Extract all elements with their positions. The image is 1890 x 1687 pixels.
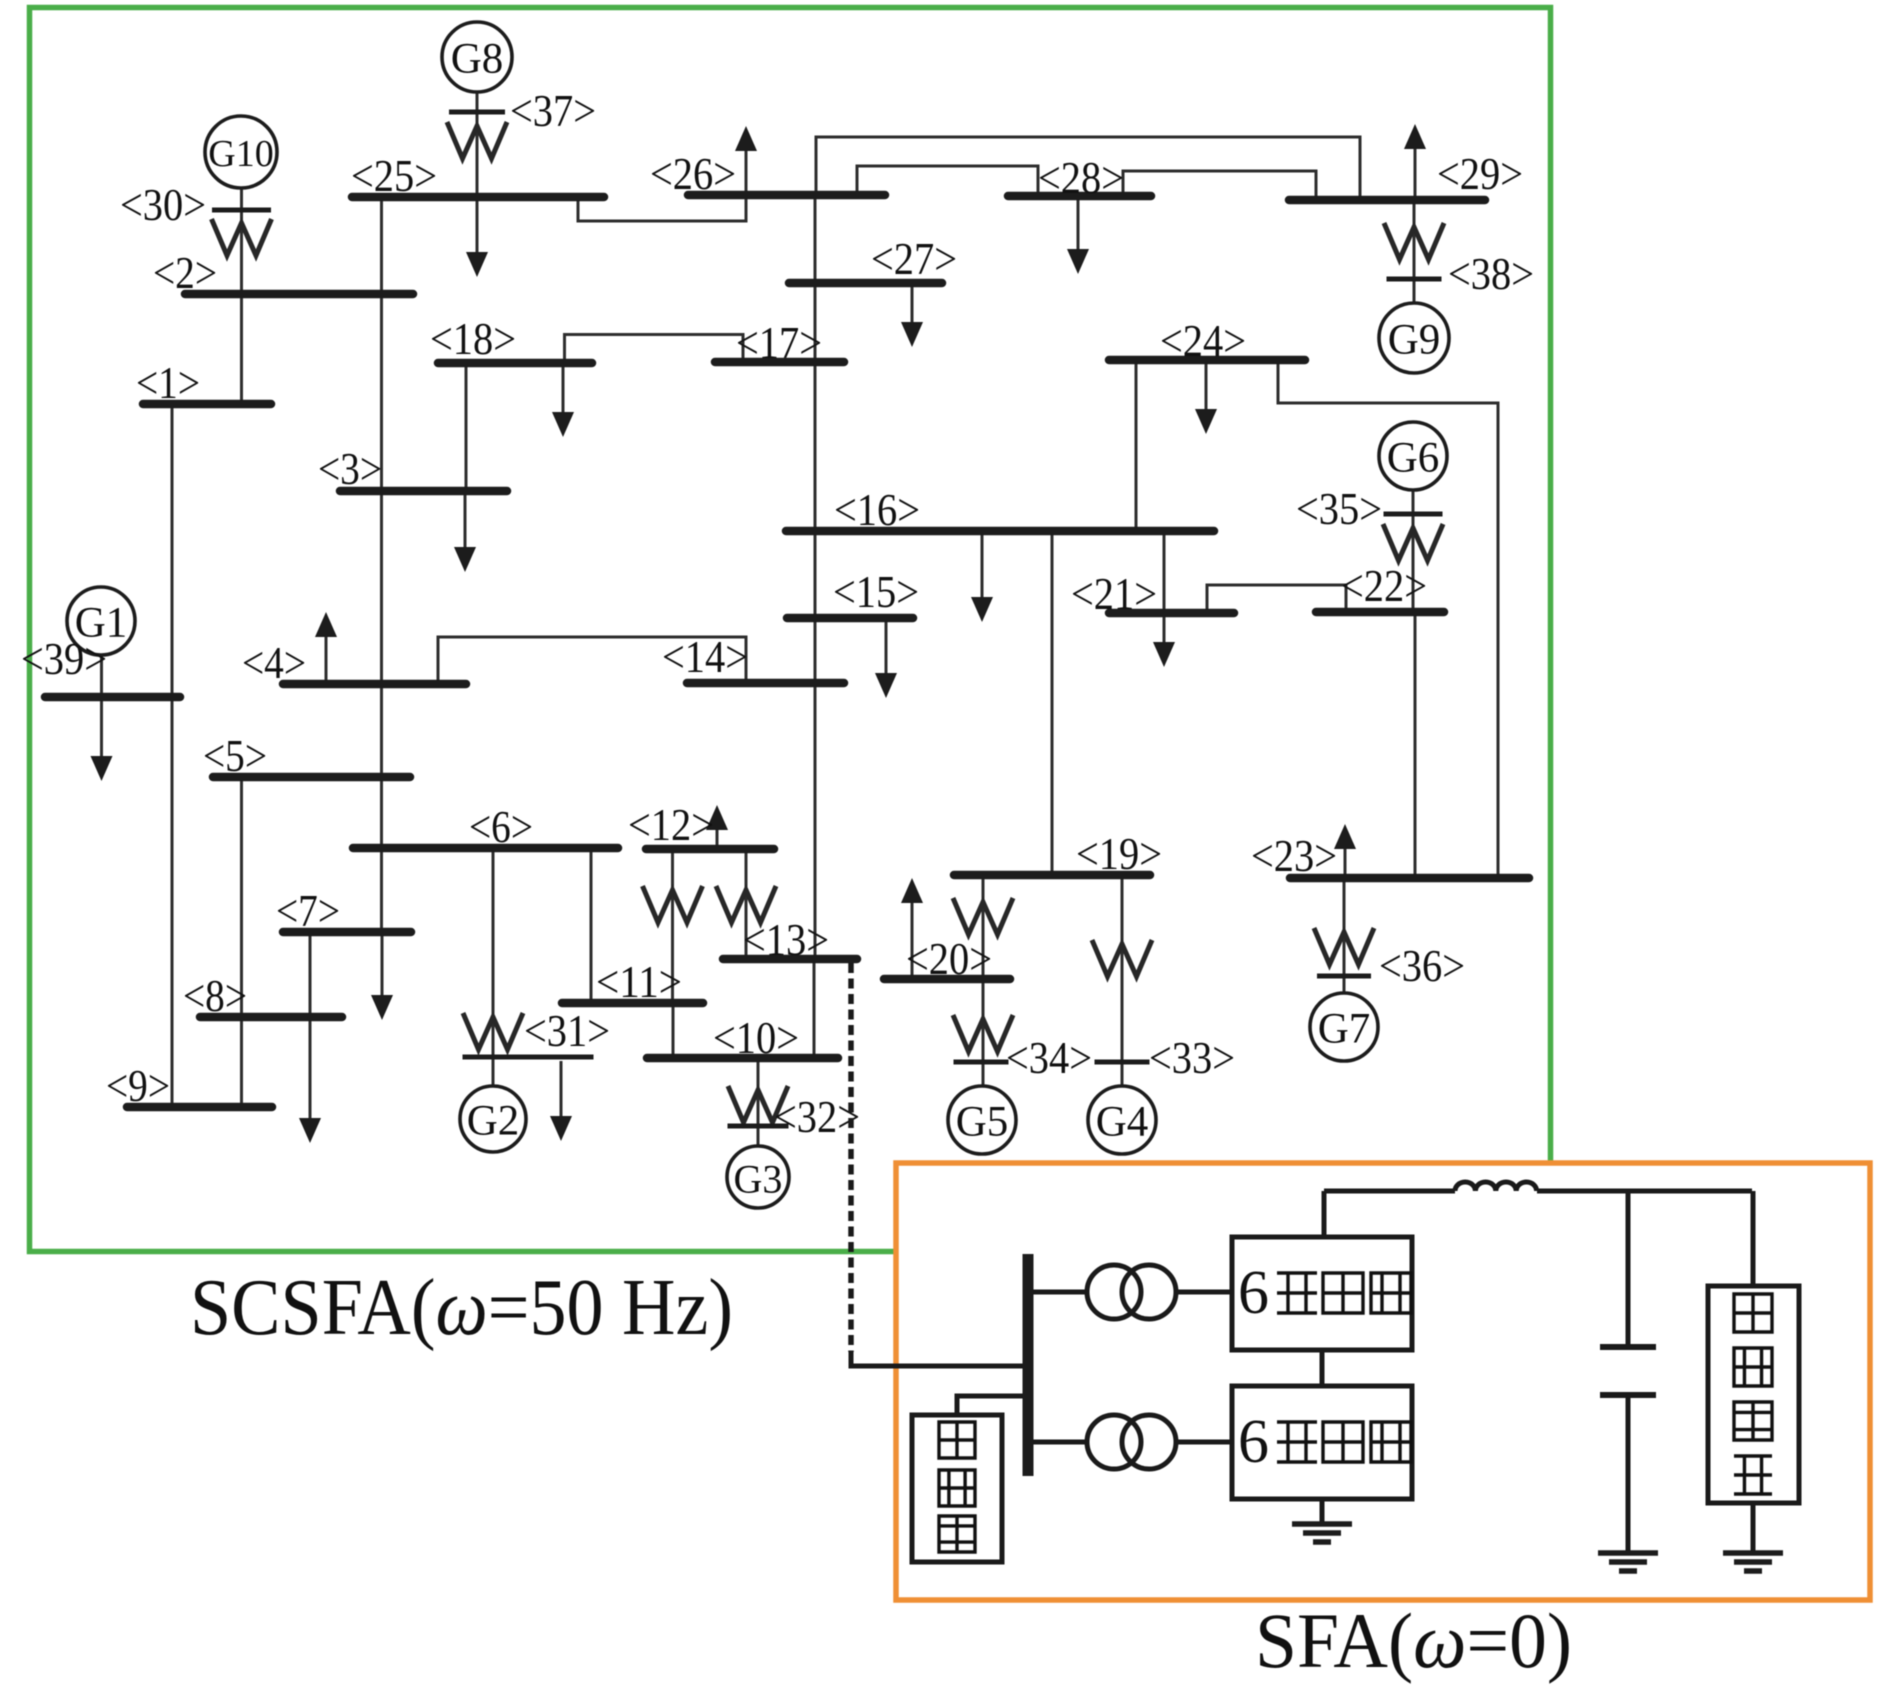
- svg-text:<33>: <33>: [1149, 1032, 1235, 1083]
- wire 17-18: [565, 335, 744, 364]
- bus 10: [647, 1054, 838, 1063]
- svg-text:<3>: <3>: [318, 443, 382, 494]
- wire 16-21: [1163, 531, 1166, 613]
- bus 18: [438, 359, 592, 368]
- wire 5-8: [240, 777, 243, 1017]
- bus 8: [200, 1013, 342, 1022]
- wire 13-10: [813, 959, 816, 1058]
- wire 16-24: [1135, 360, 1138, 531]
- wire 12-13 xfmr: [745, 849, 748, 959]
- wire 21-22: [1207, 585, 1346, 613]
- wire 6-31 G2 chain: [492, 848, 495, 1085]
- svg-text:<34>: <34>: [1006, 1032, 1092, 1083]
- svg-text:G10: G10: [208, 133, 273, 175]
- svg-text:<35>: <35>: [1296, 483, 1382, 534]
- svg-text:<6>: <6>: [469, 801, 533, 852]
- bus 13: [723, 955, 857, 964]
- svg-text:<8>: <8>: [183, 970, 247, 1021]
- wire 19-33 G4 chain: [1121, 875, 1124, 1086]
- load arrow bus12 load: [706, 805, 728, 845]
- svg-text:<5>: <5>: [203, 730, 267, 781]
- svg-text:<28>: <28>: [1038, 152, 1124, 203]
- bus 15: [787, 614, 913, 623]
- wire filter to converter bus: [957, 1396, 1023, 1415]
- wire 25-26: [578, 195, 746, 221]
- wire G10 stem 30-2-1: [240, 188, 243, 404]
- svg-text:G8: G8: [451, 36, 504, 83]
- bus 11: [562, 999, 703, 1008]
- svg-text:<26>: <26>: [650, 148, 736, 199]
- transformer winding symbol 19-33 xfmr: [1092, 940, 1152, 977]
- wire 11-10: [672, 1003, 675, 1058]
- svg-text:<16>: <16>: [834, 484, 920, 535]
- bus 5: [213, 773, 410, 782]
- bus 25: [352, 193, 604, 202]
- wire 16-15-14-13 riser: [814, 531, 817, 959]
- SFA subsystem boundary (orange box, white fill overlaps green box corner): [896, 1163, 1870, 1600]
- transformer winding symbol 12-11 xfmr winding: [643, 886, 703, 923]
- transformer winding symbol 12-13 xfmr winding: [716, 886, 776, 923]
- svg-text:G4: G4: [1096, 1099, 1149, 1146]
- load arrow bus28 load: [1067, 200, 1089, 274]
- generator G3: [727, 1146, 789, 1208]
- load arrow bus8 load: [299, 1021, 321, 1143]
- wire G1 stem: [100, 655, 103, 697]
- svg-text:<39>: <39>: [21, 633, 107, 684]
- transformer winding symbol 20-34 xfmr: [953, 1015, 1013, 1052]
- converter transformer T2: [1087, 1415, 1176, 1469]
- wire 3-18: [465, 363, 468, 491]
- load arrow bus31 load: [550, 1061, 572, 1141]
- dc filter capacitor branch: [1626, 1191, 1631, 1344]
- svg-text:<25>: <25>: [351, 150, 437, 201]
- svg-text:<32>: <32>: [774, 1091, 860, 1142]
- dashed dc tie line from bus 13: [848, 963, 854, 1352]
- wire 16-19: [1051, 531, 1054, 875]
- svg-text:<18>: <18>: [430, 313, 516, 364]
- svg-text:<14>: <14>: [662, 631, 748, 682]
- wire 6-11: [590, 848, 593, 1003]
- wire G8 stem 37-25: [476, 92, 479, 197]
- svg-text:G9: G9: [1388, 317, 1441, 364]
- bus 1: [143, 400, 271, 409]
- bus 16: [786, 527, 1214, 536]
- wire G3 stem 10-32: [757, 1058, 760, 1146]
- load arrow bus24 load: [1195, 364, 1217, 434]
- wire 26-28: [857, 166, 1038, 196]
- generator G7: [1310, 993, 1378, 1061]
- generator G1: [67, 587, 135, 655]
- generator G4: [1088, 1086, 1156, 1154]
- ground capacitor ground: [1598, 1553, 1658, 1571]
- dc load box 直流负载: [1751, 1191, 1756, 1286]
- load arrow bus18 load: [552, 367, 574, 437]
- generator G6: [1379, 422, 1447, 490]
- transformer bar node 31 bar: [463, 1055, 594, 1060]
- wire 12-11 xfmr: [671, 849, 674, 1003]
- load arrow bus21 load: [1153, 617, 1175, 667]
- svg-text:<37>: <37>: [510, 85, 596, 136]
- svg-text:<24>: <24>: [1160, 315, 1246, 366]
- svg-text:<31>: <31>: [524, 1005, 610, 1056]
- load arrow bus29 load: [1404, 124, 1426, 200]
- svg-text:G7: G7: [1318, 1006, 1371, 1053]
- generator G5: [948, 1086, 1016, 1154]
- bus 26: [688, 191, 885, 200]
- bus 3: [340, 487, 507, 496]
- transformer bar node 34 bar: [954, 1060, 1009, 1065]
- transformer winding symbol G8 xfmr: [447, 122, 507, 159]
- transformer winding symbol G10 xfmr: [212, 219, 272, 256]
- svg-text:<15>: <15>: [833, 566, 919, 617]
- svg-text:<38>: <38>: [1448, 248, 1534, 299]
- svg-text:<21>: <21>: [1071, 568, 1157, 619]
- transformer winding symbol 23-36 xfmr: [1314, 928, 1374, 965]
- svg-text:<20>: <20>: [906, 933, 992, 984]
- transformer bar node 32 bar: [728, 1124, 789, 1129]
- dc smoothing reactor + dc line: [1324, 1189, 1455, 1194]
- bus 22: [1316, 608, 1444, 617]
- bus 19: [954, 871, 1150, 880]
- svg-text:<11>: <11>: [596, 956, 682, 1007]
- wire G9 stem 29-38: [1413, 200, 1416, 303]
- wire 8-9: [240, 1017, 243, 1107]
- svg-text:6: 6: [1238, 1259, 1269, 1327]
- bus 2: [185, 290, 413, 299]
- bus 27: [789, 279, 942, 288]
- load arrow bus25 load: [466, 201, 488, 277]
- wire 27-17-16 riser: [814, 195, 817, 531]
- wire 22-23: [1414, 612, 1417, 878]
- svg-text:<29>: <29>: [1437, 148, 1523, 199]
- wire T1-bridge1: [1176, 1290, 1232, 1295]
- svg-text:SFA(ω=0): SFA(ω=0): [1255, 1597, 1572, 1684]
- wire bridge1-bridge2 link: [1320, 1350, 1325, 1386]
- transformer winding symbol G9 xfmr: [1384, 223, 1444, 260]
- svg-text:SCSFA(ω=50 Hz): SCSFA(ω=50 Hz): [190, 1264, 733, 1352]
- filter box 滤波器: [912, 1415, 1002, 1562]
- wire 4-14: [438, 637, 746, 684]
- svg-text:<13>: <13>: [743, 914, 829, 965]
- generator G2: [460, 1086, 526, 1152]
- svg-text:<2>: <2>: [153, 247, 217, 298]
- svg-text:G2: G2: [467, 1098, 520, 1145]
- load arrow bus27 load: [901, 287, 923, 347]
- load arrow bus23 load: [1334, 824, 1356, 874]
- 6-pulse bridge 2 box: [1232, 1386, 1412, 1499]
- bus 28: [1008, 192, 1151, 201]
- transformer winding symbol G3 xfmr: [728, 1086, 788, 1123]
- wire 24-23: [1278, 360, 1498, 878]
- svg-text:G6: G6: [1387, 435, 1440, 482]
- load arrow bus26 load: [735, 126, 757, 195]
- transformer winding symbol G2 xfmr: [463, 1013, 523, 1050]
- svg-text:<22>: <22>: [1341, 560, 1427, 611]
- svg-text:<36>: <36>: [1379, 940, 1465, 991]
- wire 19-20-34 G5 chain: [982, 875, 985, 1086]
- transformer bar node 37 bar: [449, 110, 505, 115]
- svg-text:<4>: <4>: [242, 637, 306, 688]
- converter transformer T1: [1087, 1265, 1176, 1319]
- bus 29: [1289, 196, 1485, 205]
- svg-text:<1>: <1>: [136, 357, 200, 408]
- bus 6: [353, 844, 618, 853]
- svg-text:<12>: <12>: [628, 799, 714, 850]
- bus 4: [283, 680, 466, 689]
- wire 28-29: [1123, 171, 1316, 200]
- load arrow bus15 load: [875, 622, 897, 698]
- load arrow bus16 load: [971, 535, 993, 622]
- transformer bar node 36 bar: [1317, 974, 1371, 979]
- svg-text:G5: G5: [956, 1099, 1009, 1146]
- svg-text:G3: G3: [734, 1157, 783, 1202]
- svg-text:<30>: <30>: [120, 179, 206, 230]
- converter ac bus: [1023, 1254, 1034, 1476]
- bus 9: [127, 1103, 272, 1112]
- bus 12: [646, 845, 774, 854]
- bus 39: [45, 693, 180, 702]
- wire bus-T1: [1033, 1290, 1087, 1295]
- wire 1-39-9: [171, 404, 174, 1107]
- bus 23: [1290, 874, 1529, 883]
- transformer bar node 30 bar: [212, 208, 271, 213]
- svg-text:<17>: <17>: [736, 317, 822, 368]
- wire 26-29: [816, 137, 1360, 200]
- load arrow bus3 load: [454, 495, 476, 572]
- wire 25-2-3-4-5-6-7 trunk: [380, 197, 383, 932]
- transformer bar node 35 bar: [1384, 512, 1443, 517]
- svg-text:6: 6: [1238, 1408, 1269, 1476]
- bus 14: [687, 679, 844, 688]
- svg-text:<27>: <27>: [871, 233, 957, 284]
- wire G6 stem 35-22: [1412, 490, 1415, 612]
- transformer bar node 38 bar: [1387, 277, 1442, 282]
- ground bridge2 ground: [1292, 1524, 1352, 1542]
- svg-text:<23>: <23>: [1251, 830, 1337, 881]
- wire bus-T2: [1033, 1440, 1087, 1445]
- bus 20: [884, 975, 1010, 984]
- svg-text:<7>: <7>: [276, 885, 340, 936]
- wire T2-bridge2: [1176, 1440, 1232, 1445]
- SCSFA system boundary (green box): [30, 8, 1551, 1252]
- load arrow bus7 load: [371, 936, 393, 1020]
- bus 24: [1109, 356, 1305, 365]
- bus 7: [283, 928, 411, 937]
- generator G10: [205, 116, 277, 188]
- bus 21: [1109, 609, 1234, 618]
- transformer bar node 33 bar: [1095, 1060, 1150, 1065]
- generator G8: [442, 22, 512, 92]
- generator G9: [1379, 303, 1449, 373]
- svg-text:<9>: <9>: [106, 1060, 170, 1111]
- transformer winding symbol 19-20 xfmr: [953, 898, 1013, 935]
- ground dc load ground: [1723, 1553, 1783, 1571]
- 6-pulse bridge 1 box: [1232, 1237, 1412, 1350]
- load arrow bus4 load: [315, 612, 337, 684]
- wire bridge2 ground stem: [1320, 1499, 1325, 1524]
- wire G7 stem 23-36: [1343, 878, 1346, 993]
- wire 7-8: [309, 932, 312, 1017]
- load arrow bus20 load: [901, 878, 923, 975]
- load arrow bus39 load: [91, 701, 113, 781]
- transformer winding symbol G6 xfmr: [1383, 524, 1443, 561]
- bus 17: [715, 358, 844, 367]
- svg-text:<19>: <19>: [1076, 828, 1162, 879]
- wire bridge1 top riser: [1322, 1191, 1327, 1237]
- svg-text:<10>: <10>: [713, 1012, 799, 1063]
